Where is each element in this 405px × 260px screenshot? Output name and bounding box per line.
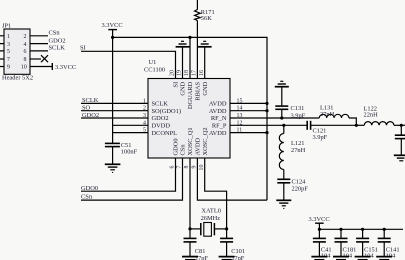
svg-text:RBIAS: RBIAS	[195, 81, 202, 100]
svg-text:100nF: 100nF	[121, 149, 138, 156]
wire GDO2 pin 3	[81, 117, 148, 119]
wire RF_P pin 12	[230, 124, 307, 126]
svg-text:6: 6	[24, 49, 27, 55]
node CSn label	[81, 194, 93, 201]
wire VCC vertical to DVDD and DCOUPL column	[112, 37, 114, 143]
node junction crystal left	[188, 227, 191, 230]
svg-text:3.3VCC: 3.3VCC	[102, 22, 123, 29]
resistor R171 56K	[195, 0, 215, 79]
svg-text:AVDD: AVDD	[209, 130, 227, 137]
pin numbers right 15-11	[237, 98, 243, 133]
node VCC junction	[111, 36, 114, 39]
wire bottom VCC rail	[319, 228, 403, 230]
svg-text:CSn: CSn	[180, 144, 187, 156]
pin numbers left 1-5	[143, 98, 146, 133]
svg-text:22nH: 22nH	[364, 112, 379, 119]
ground below C141	[376, 257, 392, 260]
svg-text:2: 2	[24, 34, 27, 40]
ground G1 above pin 19	[176, 41, 190, 78]
node junction pin11	[265, 131, 268, 134]
ground below C151	[355, 257, 371, 260]
capacitor C121 3.9pF	[307, 121, 356, 141]
svg-text:RF_P: RF_P	[212, 123, 227, 130]
connector JP1	[2, 23, 33, 82]
svg-text:GDO2: GDO2	[49, 37, 66, 44]
svg-text:SCLK: SCLK	[49, 45, 66, 52]
svg-text:CC1100: CC1100	[144, 67, 165, 74]
svg-text:20: 20	[170, 70, 176, 76]
wire JP1 pin8 no-connect X	[30, 55, 48, 62]
svg-text:DCONPL: DCONPL	[152, 130, 178, 137]
svg-text:4: 4	[143, 120, 146, 126]
svg-text:C124: C124	[292, 178, 307, 185]
svg-text:L121: L121	[291, 140, 305, 147]
wire CSn to pin 7	[81, 158, 183, 200]
svg-text:7: 7	[7, 57, 10, 63]
svg-text:1: 1	[7, 34, 10, 40]
svg-text:8: 8	[24, 57, 27, 63]
svg-text:3.3VCC: 3.3VCC	[55, 64, 76, 71]
capacitor C181 104	[335, 229, 357, 259]
node junction rail C41	[318, 228, 321, 231]
svg-text:3: 3	[143, 113, 146, 119]
svg-text:8: 8	[184, 166, 190, 169]
svg-text:6: 6	[170, 166, 176, 169]
wire VCC rail to AVDD column	[113, 37, 267, 200]
svg-text:7: 7	[177, 166, 183, 169]
svg-text:AVDD: AVDD	[209, 101, 227, 108]
node junction C131/RF_N	[280, 116, 283, 119]
svg-text:AVDD: AVDD	[195, 137, 202, 155]
svg-text:10: 10	[21, 65, 27, 71]
svg-text:SO(GDO1): SO(GDO1)	[152, 108, 181, 115]
pin names left inside	[152, 101, 181, 137]
wire pin 8 XOSC_Q1	[189, 158, 191, 229]
capacitor at right edge	[395, 125, 405, 155]
wire pin 18 DGUARD to VCC rail	[189, 37, 191, 78]
svg-text:3: 3	[7, 42, 10, 48]
svg-text:10: 10	[199, 165, 205, 171]
svg-text:DVDD: DVDD	[152, 123, 171, 130]
svg-text:16: 16	[199, 70, 205, 76]
power 3.3VCC top	[102, 22, 123, 37]
node SCLK label	[82, 97, 99, 104]
capacitor C51 100nF	[105, 142, 138, 164]
capacitor C101 27pF	[220, 229, 245, 260]
svg-text:56K: 56K	[201, 15, 212, 22]
svg-text:GND: GND	[180, 81, 187, 95]
crystal XATL0 26MHz	[190, 208, 227, 237]
wire JP1 pin6 SCLK	[30, 45, 65, 52]
ground below C101	[219, 257, 235, 260]
svg-text:9: 9	[7, 65, 10, 71]
wire GDO0 to pin 6	[81, 158, 176, 191]
svg-text:U1: U1	[149, 59, 157, 66]
svg-text:SI: SI	[80, 45, 86, 52]
svg-text:CSn: CSn	[49, 30, 61, 37]
svg-text:JP1: JP1	[2, 23, 11, 30]
pin names bottom inside	[173, 127, 209, 155]
wire AVDD pin 14	[230, 110, 267, 112]
svg-text:17: 17	[192, 70, 198, 76]
svg-text:5: 5	[143, 128, 146, 134]
ground below C41	[311, 257, 327, 260]
pin names top inside	[173, 81, 209, 109]
svg-text:3.3VCC: 3.3VCC	[309, 216, 330, 223]
node junction L131/C121	[355, 124, 358, 127]
node junction pin14	[265, 109, 268, 112]
wire RF_N pin 13	[230, 117, 319, 119]
wire JP1 left stubs	[0, 36, 4, 67]
svg-text:3.9pF: 3.9pF	[313, 134, 328, 141]
pin numbers bottom 6-10	[170, 165, 205, 171]
capacitor C81 27pF	[184, 229, 209, 260]
svg-text:GND: GND	[202, 81, 209, 95]
ground below C124	[276, 200, 291, 208]
svg-text:5: 5	[7, 49, 10, 55]
node junction crystal right	[225, 227, 228, 230]
svg-text:4: 4	[24, 42, 27, 48]
node junction RF output	[400, 124, 403, 127]
wire SI to pin 20	[81, 51, 176, 78]
node SO label	[82, 105, 91, 112]
svg-text:1: 1	[143, 98, 146, 104]
svg-text:27nH: 27nH	[320, 111, 335, 118]
wire AVDD pin 11	[230, 132, 267, 134]
wire DCOUPL pin 5	[113, 132, 148, 134]
node junction L121/RF_P	[282, 124, 285, 127]
svg-text:SI: SI	[173, 82, 180, 88]
ground G2 above pin 16	[198, 41, 212, 78]
pin numbers top 20-16	[170, 70, 205, 76]
node GDO2 label	[82, 112, 99, 119]
wire JP1 pin4 GDO2	[30, 37, 66, 44]
node junction pin18/rail	[188, 36, 191, 39]
power 3.3VCC at JP1 pin10	[30, 63, 76, 71]
svg-text:9: 9	[192, 166, 198, 169]
svg-text:18: 18	[184, 70, 190, 76]
svg-text:XATL0: XATL0	[201, 208, 221, 215]
capacitor C131 3.9pF	[275, 105, 305, 119]
op-amp U1 CC1100 body	[144, 59, 230, 158]
wire pin 10 XOSC_Q2	[205, 158, 227, 229]
node SI label	[80, 45, 86, 52]
ground below C81	[182, 257, 198, 260]
inductor L121 27nH	[279, 125, 305, 179]
inductor L131 27nH	[319, 105, 356, 126]
svg-text:RF_N: RF_N	[211, 115, 227, 122]
svg-text:26MHz: 26MHz	[201, 215, 221, 222]
svg-text:27nH: 27nH	[291, 147, 306, 154]
svg-text:AVDD: AVDD	[209, 108, 227, 115]
wire SCLK pin 1	[81, 102, 148, 104]
ground below C51	[105, 164, 121, 172]
power 3.3VCC bottom right	[309, 216, 330, 230]
capacitor C124 220pF	[277, 178, 308, 200]
node junction pin15	[265, 102, 268, 105]
capacitor C41 104	[313, 229, 332, 259]
capacitor C141 104	[378, 229, 400, 259]
wire JP1 pin2 CSn	[30, 30, 60, 37]
svg-text:DGUARD: DGUARD	[187, 81, 194, 109]
svg-text:2: 2	[143, 106, 146, 112]
svg-text:SCLK: SCLK	[152, 101, 169, 108]
svg-text:GDO2: GDO2	[152, 115, 169, 122]
node GDO0 label	[81, 185, 98, 192]
svg-text:C131: C131	[291, 105, 305, 112]
svg-text:XOSC_Q1: XOSC_Q1	[187, 127, 194, 155]
svg-text:3.9pF: 3.9pF	[291, 112, 306, 119]
wire AVDD pin 15	[230, 102, 267, 104]
svg-text:GDO0: GDO0	[173, 138, 180, 155]
node junction rail C151	[361, 228, 364, 231]
ground below C181	[333, 257, 349, 260]
wire SO pin 2	[81, 110, 148, 112]
wire DVDD pin 4	[113, 124, 148, 126]
ground G3 above C131	[275, 81, 289, 106]
svg-text:Header 5X2: Header 5X2	[2, 75, 33, 82]
ground right edge	[394, 155, 405, 161]
svg-text:19: 19	[177, 70, 183, 76]
svg-text:XOSC_Q2: XOSC_Q2	[202, 127, 209, 155]
pin names right inside	[209, 101, 227, 137]
svg-text:220pF: 220pF	[292, 186, 309, 193]
node junction rail C141	[383, 228, 386, 231]
node junction rail C181	[339, 228, 342, 231]
inductor L122 22nH	[356, 105, 405, 125]
wire pin 9 AVDD to VCC column	[197, 158, 267, 200]
capacitor C151 104	[356, 229, 378, 259]
